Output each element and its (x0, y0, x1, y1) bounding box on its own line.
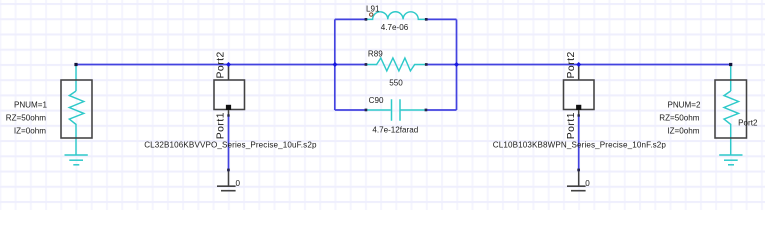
pin dot G1 wire bottom (227, 169, 230, 172)
port P1 box (61, 80, 92, 138)
wire: capacitor branch leads (blue) (335, 109, 457, 111)
port P2 box (715, 80, 747, 138)
resistor symbol inside port P1 (69, 91, 84, 155)
pin dot G2 wire top (578, 114, 580, 116)
ground of port P1 (cyan) (65, 155, 88, 165)
wire: main horizontal bus (76, 64, 731, 66)
svg-text:C90: C90 (369, 96, 384, 105)
svg-text:CL10B103KB8WPN_Series_Precise_: CL10B103KB8WPN_Series_Precise_10nF.s2p (493, 140, 667, 149)
resistor R89 symbol (366, 58, 426, 71)
ground G2 (dark) (578, 170, 580, 186)
capacitor C90 symbol (366, 109, 426, 111)
pin dot C left (365, 109, 368, 112)
pin dot L right (425, 18, 428, 21)
svg-text:CL32B106KBVVPO_Series_Precise_: CL32B106KBVVPO_Series_Precise_10uF.s2p (144, 140, 317, 149)
pin dot G2 wire bottom (577, 169, 580, 172)
wire: U2 lower wire to ground (578, 115, 580, 170)
junction J2 (bus / left rail) (333, 62, 338, 67)
pin dot L left (365, 18, 368, 21)
junction J3 (bus / right rail) (454, 62, 459, 67)
component U2 top lead (dark) (578, 65, 580, 81)
resistor symbol inside port P2 (724, 91, 739, 155)
pin dot R right (425, 63, 428, 66)
ground of port P2 (cyan) (719, 155, 742, 165)
svg-text:RZ=50ohm: RZ=50ohm (6, 114, 47, 123)
svg-text:0: 0 (236, 179, 241, 188)
port P2 top lead (cyan) (730, 65, 732, 92)
svg-text:RZ=50ohm: RZ=50ohm (659, 114, 700, 123)
pin dot C right (425, 109, 428, 112)
wire: RLC left rail (334, 19, 336, 110)
component U1 box (214, 80, 245, 110)
wire: U1 lower wire to ground (228, 115, 230, 170)
svg-text:IZ=0ohm: IZ=0ohm (14, 126, 46, 135)
wire: RLC right rail (456, 19, 458, 110)
svg-text:L91: L91 (366, 5, 380, 14)
ground G1 (dark) (228, 170, 230, 186)
svg-text:PNUM=1: PNUM=1 (14, 100, 48, 109)
junction J4 (bus / U2) (576, 62, 581, 67)
pin dot R left (365, 63, 368, 66)
component U1 top lead (dark) (228, 65, 230, 81)
svg-text:R89: R89 (368, 50, 383, 59)
svg-text:IZ=0ohm: IZ=0ohm (667, 126, 699, 135)
inductor L91 pin-1 circle (370, 13, 373, 16)
pin dot G1 wire top (227, 114, 229, 116)
wire: inductor branch leads (blue) (335, 18, 457, 20)
component U2 bottom pin square (576, 105, 581, 110)
svg-text:550: 550 (389, 79, 403, 88)
inductor L91 symbol (366, 12, 426, 20)
component U1 bottom stub (228, 110, 230, 116)
component U2 bottom stub (578, 110, 580, 116)
svg-text:0: 0 (585, 179, 590, 188)
port P1 top lead (cyan) (75, 65, 77, 92)
svg-text:PNUM=2: PNUM=2 (667, 100, 701, 109)
bus end dot left (74, 63, 77, 66)
component U1 bottom pin square (226, 105, 231, 110)
svg-text:Port1: Port1 (566, 112, 577, 139)
bus end dot right (729, 63, 732, 66)
svg-text:Port2: Port2 (566, 51, 577, 78)
component U2 box (564, 80, 595, 110)
svg-text:Port2: Port2 (216, 51, 227, 78)
svg-text:4.7e-06: 4.7e-06 (381, 23, 409, 32)
junction J1 (bus / U1) (226, 62, 231, 67)
svg-text:4.7e-12farad: 4.7e-12farad (372, 125, 418, 134)
svg-text:Port2: Port2 (738, 118, 758, 127)
svg-text:Port1: Port1 (216, 112, 227, 139)
